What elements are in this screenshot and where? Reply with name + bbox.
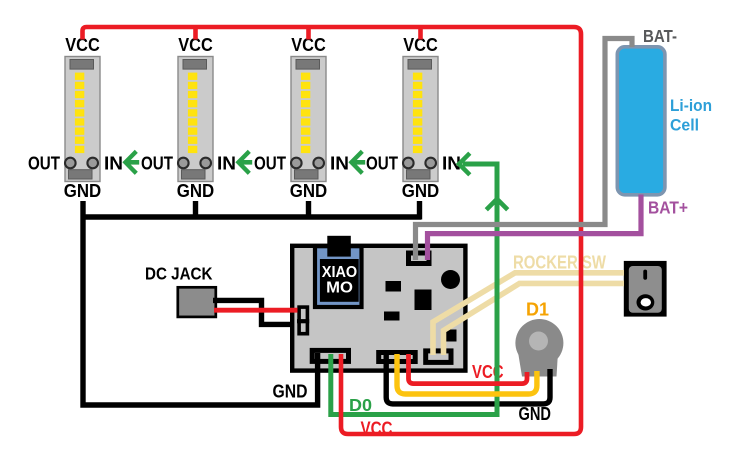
wire GND stub module 3 [306, 201, 311, 217]
battery BT1 Li-ion cell [617, 47, 665, 195]
LED bar module 2 [178, 57, 213, 182]
svg-text:IN: IN [104, 153, 123, 174]
wire yellow signal to D1 [397, 354, 537, 394]
wire rocker switch 1 (cream) [433, 273, 624, 355]
wire D0 (green) [331, 164, 497, 415]
push button [441, 270, 460, 289]
wire DC jack red [214, 308, 298, 313]
connector J2 left (power input) [299, 307, 307, 334]
connector J3 bottom-left [312, 350, 348, 361]
svg-text:OUT: OUT [366, 153, 399, 174]
component chip 1 [386, 281, 402, 292]
wire VCC stub module 3 [306, 27, 311, 40]
svg-text:OUT: OUT [28, 153, 61, 174]
arrowhead green pointing up on D0 wire [486, 199, 507, 210]
svg-text:GND: GND [290, 180, 328, 201]
svg-text:ROCKER SW: ROCKER SW [513, 252, 606, 273]
connector J1 top (battery input) [409, 253, 430, 264]
svg-text:OUT: OUT [141, 153, 174, 174]
rocker switch SW1 [624, 261, 667, 317]
XIAO carrier board U1 [292, 246, 465, 371]
svg-text:IN: IN [330, 153, 349, 174]
wire DC jack black [213, 300, 294, 324]
svg-text:XIAO: XIAO [322, 264, 357, 281]
wire VCC to D1 (red) [409, 354, 528, 384]
LED bar module 1 [65, 57, 100, 182]
svg-text:GND: GND [273, 381, 308, 402]
motor D1 [515, 319, 563, 377]
LED bar module 3 [291, 57, 326, 182]
component chip 3 [384, 312, 400, 321]
svg-text:GND: GND [64, 180, 102, 201]
DC jack J6 [178, 287, 216, 317]
wire VCC stub module 4 [418, 27, 423, 40]
USB connector tab [327, 236, 351, 257]
arrow flow OUT to IN (green) [238, 151, 252, 173]
svg-text:Li-ion: Li-ion [670, 96, 712, 115]
arrow flow OUT to IN (green) [351, 151, 365, 173]
wire GND from D1 (black) [386, 353, 550, 404]
svg-text:MO: MO [326, 280, 353, 297]
wire GND bus (black) [83, 201, 318, 405]
connector J4 bottom-middle [379, 353, 416, 362]
wire GND stub module 2 [193, 201, 198, 217]
connector J5 bottom-right [426, 351, 451, 363]
XIAO MO module [315, 246, 362, 307]
wire VCC stub module 2 [193, 27, 198, 40]
component chip 4 [445, 330, 457, 342]
svg-text:D1: D1 [526, 299, 549, 320]
LED bar module 4 [403, 57, 438, 182]
wire rocker switch 2 (cream) [444, 283, 625, 355]
svg-text:GND: GND [177, 180, 215, 201]
arrow flow OUT to IN (green) [125, 151, 139, 173]
svg-text:OUT: OUT [254, 153, 287, 174]
svg-text:DC JACK: DC JACK [145, 264, 213, 284]
svg-text:GND: GND [402, 180, 440, 201]
wire VCC top bus and loop (red) [83, 27, 582, 434]
svg-text:Cell: Cell [670, 116, 699, 135]
component chip 2 [415, 290, 432, 311]
label Li-ion Cell [670, 96, 712, 135]
svg-text:IN: IN [217, 153, 236, 174]
wire BAT+ (purple) [428, 195, 642, 261]
wire BAT- (gray) [416, 39, 633, 261]
svg-text:BAT-: BAT- [643, 26, 677, 46]
svg-text:BAT+: BAT+ [648, 198, 688, 218]
arrowhead green pointing left at IN of module 4 [459, 153, 470, 175]
wire GND stub module 4 [417, 201, 422, 220]
